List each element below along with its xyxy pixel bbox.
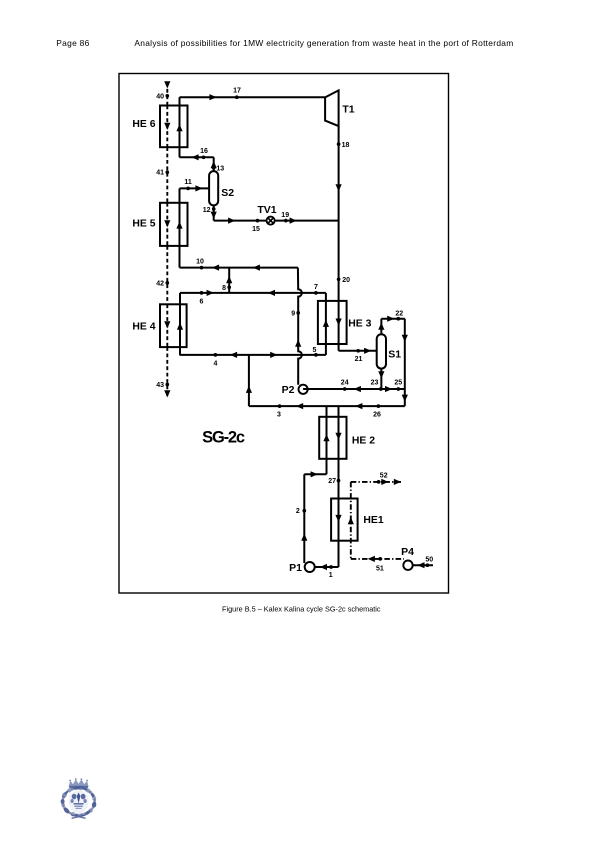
svg-text:2: 2 xyxy=(296,508,300,515)
svg-text:HE 4: HE 4 xyxy=(132,322,155,333)
svg-text:P1: P1 xyxy=(289,562,302,574)
svg-text:S1: S1 xyxy=(388,348,401,360)
svg-text:P4: P4 xyxy=(401,546,414,558)
svg-text:19: 19 xyxy=(281,212,289,219)
svg-text:18: 18 xyxy=(342,142,350,149)
svg-text:25: 25 xyxy=(394,379,402,386)
svg-text:Figure B.5 – Kalex Kalina cycl: Figure B.5 – Kalex Kalina cycle SG-2c sc… xyxy=(222,605,381,614)
svg-text:16: 16 xyxy=(200,148,208,155)
svg-text:HE 2: HE 2 xyxy=(352,435,375,446)
svg-text:Page 86: Page 86 xyxy=(56,38,89,48)
svg-text:HE 6: HE 6 xyxy=(132,119,155,130)
svg-text:8: 8 xyxy=(222,285,226,292)
svg-text:15: 15 xyxy=(252,226,260,233)
svg-text:T1: T1 xyxy=(342,104,354,116)
svg-text:51: 51 xyxy=(376,565,384,572)
svg-text:21: 21 xyxy=(355,356,363,363)
svg-text:P2: P2 xyxy=(282,384,295,396)
svg-text:52: 52 xyxy=(380,473,388,480)
svg-text:HE 5: HE 5 xyxy=(132,219,155,230)
svg-text:27: 27 xyxy=(328,478,336,485)
svg-text:9: 9 xyxy=(291,310,295,317)
svg-text:4: 4 xyxy=(213,361,217,368)
svg-text:Analysis of possibilities for: Analysis of possibilities for 1MW electr… xyxy=(134,38,513,48)
svg-text:24: 24 xyxy=(341,379,349,386)
svg-text:26: 26 xyxy=(373,411,381,418)
svg-text:5: 5 xyxy=(313,347,317,354)
svg-text:HE1: HE1 xyxy=(363,515,383,526)
svg-text:23: 23 xyxy=(371,379,379,386)
svg-text:7: 7 xyxy=(314,284,318,291)
svg-text:S2: S2 xyxy=(221,187,234,199)
svg-text:20: 20 xyxy=(342,277,350,284)
svg-text:22: 22 xyxy=(395,310,403,317)
svg-text:41: 41 xyxy=(156,170,164,177)
svg-text:12: 12 xyxy=(203,207,211,214)
svg-text:3: 3 xyxy=(277,411,281,418)
svg-text:43: 43 xyxy=(156,382,164,389)
svg-text:10: 10 xyxy=(196,259,204,266)
svg-text:TV1: TV1 xyxy=(257,204,276,216)
svg-text:1: 1 xyxy=(329,572,333,579)
svg-text:6: 6 xyxy=(200,298,204,305)
svg-text:40: 40 xyxy=(156,93,164,100)
svg-text:13: 13 xyxy=(216,166,224,173)
svg-text:SG-2c: SG-2c xyxy=(202,429,245,447)
svg-text:HE 3: HE 3 xyxy=(348,319,371,330)
svg-text:50: 50 xyxy=(425,556,433,563)
svg-text:42: 42 xyxy=(156,280,164,287)
svg-text:11: 11 xyxy=(184,179,192,186)
svg-text:17: 17 xyxy=(233,88,241,95)
